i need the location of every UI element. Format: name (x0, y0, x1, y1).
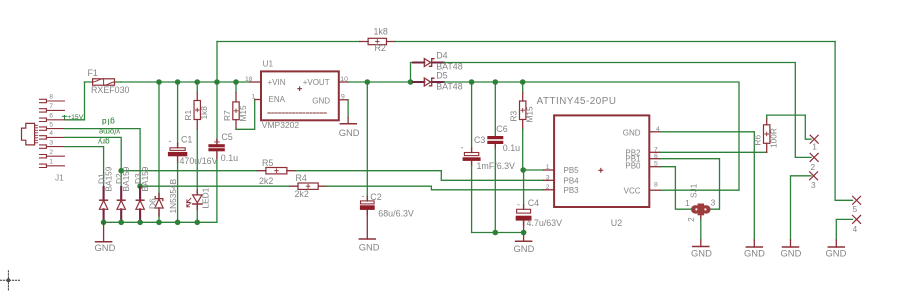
wire X4 to ground (836, 219, 852, 240)
svg-text:18: 18 (245, 76, 253, 83)
svg-text:M15: M15 (525, 106, 535, 123)
pin X4 (853, 215, 861, 234)
supply symbol +15V (62, 114, 83, 121)
svg-text:5: 5 (853, 204, 858, 214)
wire PB0 to SJ1 pin1 (660, 167, 691, 210)
svg-text:-: - (362, 191, 365, 201)
svg-text:PB5: PB5 (564, 166, 580, 175)
junction node rail-R7 (233, 79, 239, 85)
svg-text:SJ1: SJ1 (689, 183, 699, 198)
svg-text:U1: U1 (263, 59, 274, 69)
frame origin cross (1, 271, 20, 291)
pin U2-1 PB5 (544, 169, 555, 171)
svg-text:2: 2 (811, 162, 816, 172)
pin X3 (810, 172, 818, 190)
svg-text:gry: gry (97, 137, 109, 146)
ground GND C2 (359, 210, 380, 253)
capacitor C5 (208, 82, 238, 163)
svg-text:+VIN: +VIN (268, 78, 286, 87)
wire R4 to PB3 (327, 186, 544, 190)
svg-text:-: - (169, 136, 172, 146)
svg-text:F1: F1 (88, 68, 98, 78)
svg-text:y/orne: y/orne (99, 128, 120, 137)
svg-text:6: 6 (49, 113, 53, 120)
svg-text:3: 3 (49, 139, 53, 146)
capacitor C6 (487, 82, 520, 233)
svg-text:4: 4 (853, 224, 858, 234)
junction node rail-C1 (175, 220, 181, 226)
pin U2-3 PB4 (544, 179, 555, 181)
diode D4 (413, 51, 463, 72)
svg-text:+15V: +15V (67, 114, 84, 121)
ground GND C4 (514, 241, 535, 254)
svg-text:GND: GND (744, 248, 765, 259)
diode D3 (133, 166, 150, 222)
ground GND diodes (95, 222, 116, 253)
svg-text:1k8: 1k8 (199, 106, 209, 120)
svg-text:GND: GND (826, 248, 847, 259)
wire ground collector C3 C6 C4 (472, 232, 524, 234)
wire X3 to ground (791, 176, 812, 240)
svg-text:U2: U2 (611, 218, 622, 228)
svg-text:ENA: ENA (269, 95, 286, 104)
svg-text:10: 10 (340, 76, 348, 83)
svg-text:C2: C2 (370, 192, 381, 202)
svg-text:J1: J1 (55, 173, 64, 183)
svg-text:GND: GND (514, 243, 535, 254)
wire top loop R2 left vertical (216, 42, 218, 83)
wire main +15V rail (121, 81, 250, 83)
wire diode ground rail (104, 158, 217, 222)
svg-text:5: 5 (49, 121, 53, 128)
ground GND U1 (339, 100, 360, 138)
resistor R3 (509, 82, 535, 129)
svg-text:-: - (461, 143, 464, 153)
svg-text:470u/16V: 470u/16V (180, 156, 218, 166)
connector J1 (22, 123, 65, 182)
resistor R4 (290, 173, 327, 199)
junction node D3-R4 (137, 183, 143, 189)
pin U2-4 GND (649, 131, 660, 133)
junction node rail-C5 (214, 79, 220, 85)
svg-text:R4: R4 (296, 173, 307, 183)
svg-text:-: - (517, 200, 520, 210)
wire grv (64, 147, 103, 197)
wire PB2 to R6 (660, 151, 767, 153)
svg-text:9: 9 (341, 94, 345, 101)
svg-text:PB4: PB4 (564, 176, 580, 185)
svg-text:1k8: 1k8 (374, 27, 388, 37)
svg-text:3: 3 (546, 175, 550, 182)
pin U2-5 PB0 (649, 166, 660, 168)
svg-text:68u/6.3V: 68u/6.3V (378, 209, 414, 219)
svg-text:1N5354B: 1N5354B (168, 178, 178, 213)
svg-text:3: 3 (811, 180, 816, 190)
pin J1-5 (40, 121, 65, 130)
junction node C6-gnd (493, 230, 499, 236)
diode D2 (114, 166, 131, 222)
svg-text:VCC: VCC (624, 187, 641, 196)
svg-text:0.1u: 0.1u (503, 143, 520, 153)
zener D6 (148, 82, 179, 222)
svg-text:GND: GND (359, 242, 380, 253)
wire R3 to PB5 and C4 (523, 129, 544, 205)
svg-text:4: 4 (49, 130, 53, 137)
capacitor C1 (168, 82, 218, 222)
junction node D2-R5 (118, 168, 124, 174)
capacitor C4 (516, 198, 562, 241)
pin U2-7 PB2 (649, 151, 660, 153)
junction node rail-C6 (493, 79, 499, 85)
svg-text:LED1: LED1 (200, 187, 210, 208)
svg-text:R5: R5 (262, 158, 273, 168)
svg-text:VMP3202: VMP3202 (262, 120, 300, 130)
wire y/olno (64, 137, 121, 196)
junction node rail-C2 (365, 79, 371, 85)
diode D1 (97, 166, 114, 222)
resistor R6 (753, 115, 779, 152)
svg-text:100R: 100R (769, 128, 779, 148)
junction node rail-LED1 (194, 220, 200, 226)
junction node rail-C1 (175, 79, 181, 85)
svg-text:C1: C1 (181, 134, 192, 144)
pin J1-1 (40, 159, 65, 168)
fuse F1 (85, 68, 130, 95)
junction node rail-D1 (101, 220, 107, 226)
pin J1-8 (40, 94, 65, 103)
svg-text:2: 2 (687, 217, 696, 222)
svg-text:GND: GND (781, 248, 802, 259)
diode D5 (413, 70, 463, 91)
wire top loop right horizontal (395, 41, 835, 43)
svg-text:C4: C4 (528, 198, 539, 208)
ground GND right C (826, 247, 847, 259)
svg-text:1: 1 (49, 159, 53, 166)
svg-text:1: 1 (812, 142, 817, 152)
junction node rail-R3 (520, 79, 526, 85)
wire R5 to PB4 (295, 171, 543, 181)
junction node rail-D2 (118, 220, 124, 226)
svg-text:BA159: BA159 (121, 166, 131, 191)
junction node rail-D6 (156, 220, 162, 226)
svg-text:R6: R6 (753, 135, 763, 146)
pin J1-6 (40, 113, 65, 122)
svg-text:1: 1 (252, 94, 256, 101)
svg-text:GND: GND (623, 128, 641, 137)
pin J1-7 (40, 103, 65, 112)
svg-text:BAT48: BAT48 (436, 81, 463, 91)
svg-text:5: 5 (654, 160, 658, 167)
svg-text:6: 6 (654, 153, 658, 160)
svg-text:2k2: 2k2 (295, 189, 309, 199)
wire D4 to X2 (444, 63, 811, 158)
pin J1-3 (40, 139, 65, 148)
svg-text:2: 2 (49, 149, 53, 156)
svg-text:R3: R3 (509, 111, 519, 122)
svg-text:4.7u/63V: 4.7u/63V (527, 218, 563, 228)
junction node PB5-R3-C4 (520, 167, 526, 173)
svg-text:PB3: PB3 (564, 186, 580, 195)
svg-text:8: 8 (654, 181, 658, 188)
pin U2-8 VCC (649, 189, 660, 191)
svg-text:C6: C6 (496, 124, 507, 134)
ground GND SJ1 (691, 219, 712, 259)
svg-text:D5: D5 (436, 70, 447, 80)
resistor R5 (257, 158, 295, 186)
pin X5 (853, 196, 861, 214)
capacitor C2 (360, 82, 414, 219)
wire +VOUT rail (349, 81, 414, 83)
svg-text:2: 2 (546, 184, 550, 191)
regulator U1 (245, 59, 349, 131)
resistor R2 (360, 27, 395, 54)
svg-text:RXEF030: RXEF030 (91, 85, 130, 95)
wire ENA from R7 (236, 100, 255, 130)
svg-text:GND: GND (691, 248, 712, 259)
wire top loop right vertical down to X5 (835, 42, 852, 201)
svg-text:D6: D6 (148, 198, 158, 209)
svg-text:PB0: PB0 (625, 162, 641, 171)
svg-text:BA159: BA159 (103, 166, 113, 191)
pin J1-4 (40, 130, 65, 139)
wire R4 input from D3 (140, 185, 289, 187)
svg-text:GND: GND (95, 242, 116, 253)
svg-text:D4: D4 (436, 51, 447, 61)
junction node rail-D3 (137, 220, 143, 226)
junction node rail-D6 (156, 79, 162, 85)
pin U2-6 PB1 (649, 158, 660, 160)
junction node rail-D4 (408, 79, 414, 85)
mcu U2 ATTINY45 (537, 96, 660, 228)
pin U2-2 PB3 (544, 189, 555, 191)
wire gld (64, 129, 140, 197)
ground GND right B (781, 247, 802, 259)
pin X1 (810, 135, 818, 151)
svg-text:1: 1 (546, 164, 550, 171)
wire 3V3 rail right (444, 82, 739, 190)
svg-text:M15: M15 (238, 105, 248, 122)
svg-text:1: 1 (685, 198, 690, 208)
wire R5 input from D2 (121, 170, 257, 172)
wire R6 top to X1 (767, 115, 811, 139)
solder jumper SJ1 (685, 183, 716, 221)
resistor R1 (183, 82, 209, 129)
svg-text:+VOUT: +VOUT (303, 78, 330, 87)
svg-text:GND: GND (339, 127, 360, 138)
svg-text:3: 3 (711, 197, 716, 207)
resistor R7 (222, 82, 248, 129)
svg-text:C3: C3 (474, 135, 485, 145)
junction node C4-gnd (521, 230, 527, 236)
wire top loop left horizontal (217, 41, 360, 43)
led LED1 (187, 129, 211, 222)
svg-text:8: 8 (49, 94, 53, 101)
svg-text:R2: R2 (375, 43, 386, 53)
ground GND right A (744, 247, 765, 259)
svg-text:gld: gld (101, 117, 115, 127)
svg-text:C5: C5 (221, 132, 232, 142)
svg-text:R7: R7 (222, 110, 232, 121)
wire PB1 to SJ1 pin3 (660, 159, 720, 210)
svg-text:BA159: BA159 (140, 166, 150, 191)
wire U2 GND pin4 (660, 132, 754, 240)
svg-text:0.1u: 0.1u (221, 153, 238, 163)
svg-text:ATTINY45-20PU: ATTINY45-20PU (537, 96, 617, 107)
svg-text:GND: GND (312, 97, 330, 106)
pin J1-2 (40, 149, 65, 158)
capacitor C3 (461, 82, 516, 233)
pin X2 (810, 153, 818, 172)
junction node rail-R1 (194, 79, 200, 85)
wire left drop to J1 pin6 (64, 82, 84, 120)
svg-text:2k2: 2k2 (259, 176, 273, 186)
junction node rail-C3 (469, 79, 475, 85)
svg-text:R1: R1 (183, 110, 193, 121)
svg-text:7: 7 (49, 103, 53, 110)
wire D4 branch vertical (411, 63, 414, 83)
